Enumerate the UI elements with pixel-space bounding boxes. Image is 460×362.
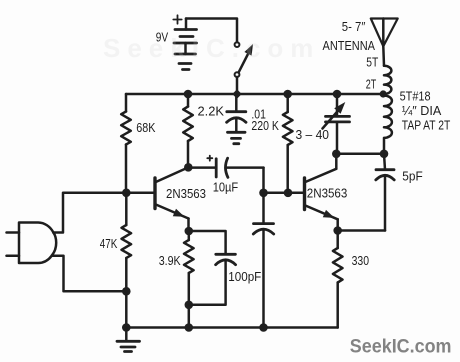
- battery B1 9V: [174, 19, 197, 70]
- wire emitter node to 330: [336, 231, 339, 249]
- svg-text:5T: 5T: [366, 55, 378, 70]
- resistor R1 68K: [121, 112, 131, 145]
- capacitor C3 (emitter bypass): [253, 193, 273, 328]
- top supply bus: [126, 93, 384, 96]
- wire emitter node to 5pF: [338, 229, 385, 232]
- junction ground bus / 3.9K: [185, 323, 194, 332]
- junction Q1 emitter node: [185, 227, 194, 236]
- wire bus down-left leg: [125, 94, 128, 112]
- junction Q2 base rail left: [259, 189, 268, 198]
- svg-text:5T#18: 5T#18: [400, 89, 431, 104]
- wire 220K bottom: [286, 145, 289, 193]
- svg-text:220 K: 220 K: [251, 118, 279, 133]
- wire Q2 base rail: [264, 192, 304, 195]
- resistor R5 220K: [283, 112, 293, 145]
- svg-text:¼″ DIA: ¼″ DIA: [402, 103, 442, 118]
- svg-text:SeekIC.com: SeekIC.com: [103, 33, 320, 63]
- wire mic lower terminal to 47K bottom: [52, 256, 127, 292]
- ground (below C4): [228, 118, 246, 144]
- svg-text:5pF: 5pF: [402, 169, 422, 184]
- inductor L1 upper 5T section: [384, 66, 391, 94]
- resistor R3 2.2K: [183, 107, 193, 142]
- capacitor C5 trimmer 3-40: [323, 94, 350, 154]
- junction Q1 collector node: [184, 163, 193, 172]
- resistor R6 330: [333, 248, 343, 283]
- junction top bus / 2.2K: [184, 90, 193, 99]
- svg-text:2.2K: 2.2K: [198, 104, 225, 119]
- wire 47K to mic lower node: [125, 258, 128, 291]
- junction ground bus left: [122, 323, 131, 332]
- svg-text:TAP AT 2T: TAP AT 2T: [402, 118, 451, 133]
- resistor R2 47K: [122, 225, 132, 258]
- svg-text:3 – 40: 3 – 40: [296, 127, 330, 142]
- capacitor C4 .01: [227, 94, 246, 122]
- switch S1: [235, 42, 253, 77]
- ground bus: [126, 326, 337, 329]
- svg-text:2T: 2T: [366, 77, 377, 92]
- svg-text:2N3563: 2N3563: [307, 186, 348, 201]
- wire emitter node to 3.9K: [188, 231, 191, 240]
- junction 220K / base rail: [284, 189, 293, 198]
- capacitor C2 100pF: [189, 231, 236, 305]
- node coil tap at 2T: [380, 90, 387, 97]
- capacitor C6 5pF: [376, 154, 394, 231]
- wire Q2 emitter down: [336, 219, 339, 230]
- svg-text:330: 330: [352, 253, 369, 268]
- svg-text:ANTENNA: ANTENNA: [323, 38, 376, 53]
- junction top bus / 220K: [283, 90, 292, 99]
- junction top bus / switch: [232, 89, 241, 98]
- ground (main): [117, 328, 140, 352]
- wire 330 to ground bus: [336, 283, 339, 328]
- svg-text:2N3563: 2N3563: [166, 186, 206, 201]
- junction Q2 emitter node: [333, 226, 342, 235]
- wire tank link: [336, 153, 384, 156]
- svg-text:47K: 47K: [100, 236, 118, 251]
- wire 68K to base node: [125, 145, 128, 193]
- resistor R4 3.9K: [184, 240, 194, 273]
- wire battery positive to switch: [186, 19, 237, 43]
- transistor Q1 2N3563: [155, 168, 189, 219]
- wire Q1 base: [126, 192, 153, 195]
- junction ground bus / C3: [259, 323, 268, 332]
- junction collector / tank: [332, 150, 341, 159]
- svg-text:SeekIC.com: SeekIC.com: [350, 336, 452, 358]
- transistor Q2 2N3563: [305, 169, 338, 220]
- svg-text:10µF: 10µF: [213, 180, 239, 195]
- svg-text:68K: 68K: [136, 120, 155, 135]
- inductor L1 lower section: [384, 96, 392, 150]
- wire to ground bus: [125, 291, 128, 327]
- wire Q1 emitter down: [187, 219, 190, 232]
- junction coil bottom: [380, 150, 389, 159]
- wire switch to top bus: [236, 77, 239, 94]
- wire 3.9K to ground bus: [188, 273, 191, 328]
- junction top bus / trimmer: [333, 90, 342, 99]
- svg-text:3.9K: 3.9K: [159, 253, 181, 268]
- antenna: [371, 19, 398, 66]
- svg-text:5- 7″: 5- 7″: [342, 19, 366, 34]
- wire mic upper terminal to Q1 base rail: [53, 193, 126, 233]
- capacitor C1 10uF: [188, 158, 263, 177]
- wire 220K top: [286, 94, 289, 112]
- label plus (10uF): [207, 156, 212, 161]
- wire 2.2K to collector node: [187, 141, 190, 167]
- junction mic lower node: [122, 287, 131, 296]
- microphone MIC: [7, 223, 57, 264]
- wire base node to 47K: [125, 193, 128, 225]
- battery plus label: [173, 15, 181, 23]
- junction 3.9K / 100pF bottom: [185, 301, 194, 310]
- wire Q2 collector up: [335, 154, 338, 169]
- junction base node Q1: [122, 189, 131, 198]
- wire 10uF out corner down: [262, 168, 265, 193]
- wire 2.2K top: [187, 94, 190, 107]
- svg-text:100pF: 100pF: [228, 269, 261, 284]
